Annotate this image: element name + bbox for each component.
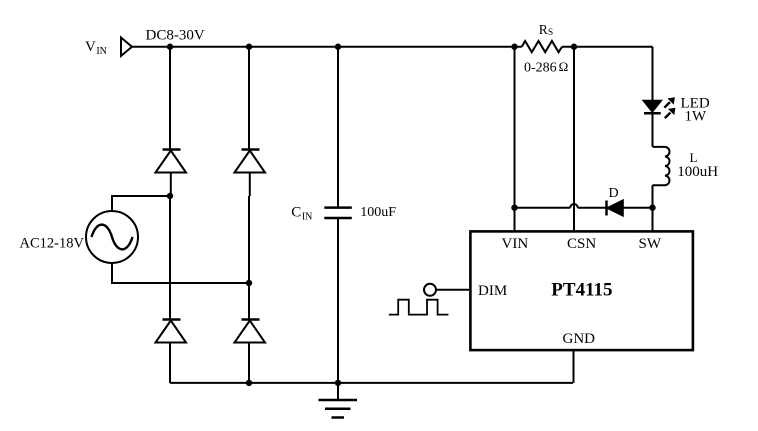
diode D2 upper-right (bridge) [235, 150, 266, 197]
junction dot at right column / top rail [246, 44, 252, 50]
capacitor Cin plates [324, 208, 352, 218]
junction dot ground / bottom rail [335, 380, 341, 386]
junction dot at Vin / left column [167, 44, 173, 50]
wire right column bottom [248, 343, 250, 383]
input terminal Vin (triangle connector) [121, 38, 132, 57]
AC source sine wave [92, 225, 133, 250]
svg-text:100uF: 100uF [360, 205, 396, 220]
LED light arrow 2 [665, 108, 675, 118]
junction dot at Cin / top rail [335, 44, 341, 50]
svg-text:CSN: CSN [567, 236, 596, 252]
wire top rail left: Vin tip to Rs left [132, 46, 522, 48]
ground symbol [319, 383, 358, 418]
LED light arrow 1 [664, 98, 674, 108]
wire bottom rail [170, 382, 573, 384]
svg-text:AC12-18V: AC12-18V [20, 236, 85, 252]
diode D1 upper-left (bridge) [156, 150, 187, 197]
junction dot AC top to left column [167, 193, 173, 199]
wire hop over CSN line [570, 204, 577, 208]
wire DIM terminal to IC [436, 289, 469, 291]
junction dot at Rs right / CSN column [571, 44, 577, 50]
svg-text:PT4115: PT4115 [551, 280, 612, 301]
junction dot SW column / freewheel row [649, 205, 655, 211]
svg-text:0-286Ω: 0-286Ω [524, 59, 568, 76]
junction dot AC bottom to right column [246, 280, 252, 286]
wire LED to inductor [652, 113, 654, 147]
svg-text:GND: GND [563, 331, 596, 347]
svg-text:1W: 1W [685, 109, 708, 125]
wire left diode column (x=170) [169, 47, 171, 150]
resistor Rs zigzag [522, 41, 562, 52]
AC source circle [86, 211, 138, 263]
wire CSN column [573, 47, 575, 231]
wire diode cathode to SW node [623, 207, 653, 209]
wire freewheel row: VIN node to diode [515, 207, 571, 209]
wire right column middle [248, 196, 250, 320]
svg-text:SW: SW [639, 236, 662, 252]
LED D5 (emitting diode, filled, pointing down) [644, 101, 661, 113]
svg-text:DC8-30V: DC8-30V [146, 28, 205, 44]
diode D3 lower-left (bridge) [156, 320, 187, 343]
wire AC top bracket [112, 196, 170, 211]
diode D (freewheeling, filled, pointing left) [607, 201, 623, 216]
wire top rail right: Rs right to top-right corner [562, 46, 653, 48]
wire SW column top (to LED) [652, 47, 654, 101]
wire right diode column (x=249) [248, 47, 250, 150]
wire inductor to SW node [652, 185, 654, 231]
svg-text:RS: RS [539, 22, 553, 38]
wire Cin column top [337, 47, 339, 208]
svg-text:VIN: VIN [502, 236, 529, 252]
wire GND pin down [573, 350, 575, 383]
junction dot right column / bottom rail [246, 380, 252, 386]
wire hop to diode anode [578, 207, 607, 209]
svg-text:L: L [690, 150, 698, 165]
svg-text:VIN: VIN [85, 39, 107, 57]
wire left column bottom [169, 343, 171, 383]
wire Cin column bottom [337, 218, 339, 383]
svg-text:CIN: CIN [291, 205, 312, 223]
wire left column middle [169, 196, 171, 320]
junction dot at Rs left / VIN column [511, 44, 517, 50]
inductor L coil [653, 147, 670, 185]
PWM waveform [389, 300, 449, 315]
wire AC bottom bracket [112, 264, 249, 284]
wire VIN column [514, 47, 516, 231]
diode D4 lower-right (bridge) [235, 320, 266, 343]
junction dot VIN column / freewheel row [511, 205, 517, 211]
DIM terminal circle [424, 284, 436, 296]
svg-text:D: D [609, 186, 619, 201]
svg-text:DIM: DIM [478, 283, 507, 299]
svg-text:100uH: 100uH [677, 164, 718, 180]
IC U1 PT4115 box [470, 231, 693, 350]
